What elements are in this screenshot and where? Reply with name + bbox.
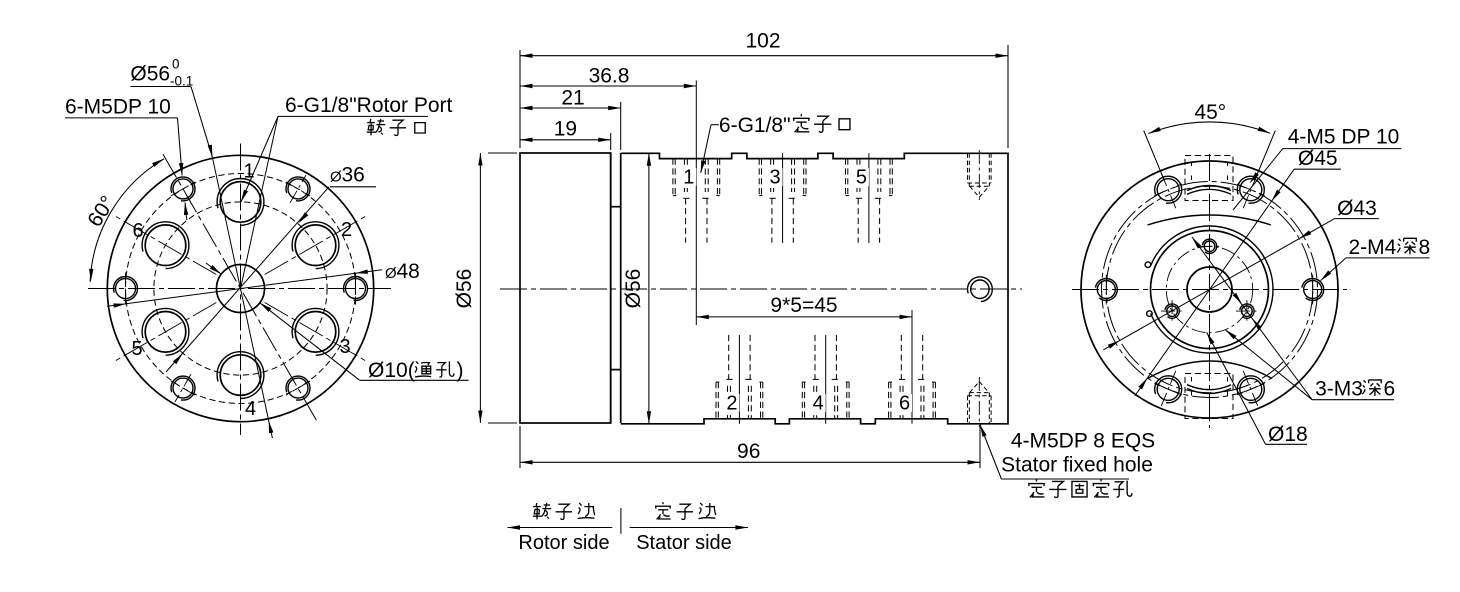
svg-text:9*5=45: 9*5=45 xyxy=(770,294,837,317)
svg-text:Ø56: Ø56 xyxy=(622,269,645,309)
svg-text:5: 5 xyxy=(856,167,867,189)
hole 60 deg radial tick xyxy=(290,175,306,203)
svg-text:19: 19 xyxy=(554,117,577,140)
svg-text:6: 6 xyxy=(899,393,910,415)
svg-text:6: 6 xyxy=(132,220,143,242)
svg-text:1: 1 xyxy=(243,161,254,183)
dim 36.8 xyxy=(520,85,696,87)
circlip lug holes xyxy=(1145,262,1151,268)
svg-text:6: 6 xyxy=(1384,378,1396,401)
svg-text:21: 21 xyxy=(561,87,584,110)
port 6 radial centerline xyxy=(114,216,216,275)
hole 0 deg tangential tick xyxy=(355,275,357,303)
port 2 radial centerline xyxy=(265,216,367,275)
hole 0 deg vertical tick xyxy=(355,273,357,305)
stator body outline with port recesses xyxy=(621,153,1008,424)
port 3 centerline xyxy=(782,153,784,243)
svg-text:Ø56: Ø56 xyxy=(453,269,476,309)
port 5 radial centerline xyxy=(114,303,216,362)
hole 240 deg radial tick xyxy=(175,374,191,402)
stator port 5 hidden bore lines (top) xyxy=(859,159,861,192)
retaining ring (circlip) arc xyxy=(1146,226,1273,353)
left view outer flange circle Ø56 xyxy=(107,155,373,421)
svg-text:3: 3 xyxy=(339,336,350,358)
svg-text:6-G1/8": 6-G1/8" xyxy=(719,114,791,137)
M5 mounting hole at 0 deg xyxy=(346,279,366,299)
stator port 3 hidden thread lines (top) xyxy=(761,159,763,196)
rotor port 4 thread arc xyxy=(217,352,264,399)
svg-text:4-M5DP 8 EQS: 4-M5DP 8 EQS xyxy=(1011,430,1155,453)
svg-text:4: 4 xyxy=(245,398,256,420)
M5 mounting hole at 180 deg xyxy=(116,279,136,299)
hole 180 deg tangential tick xyxy=(125,275,127,303)
45 degree dim extension lines xyxy=(1255,131,1275,180)
port 1 centerline extension xyxy=(695,81,697,326)
right view inner step circle xyxy=(1151,231,1269,349)
right view outer circle xyxy=(1081,161,1338,418)
slot projection shallow arcs top xyxy=(1148,215,1272,225)
M5 mounting hole at 60 deg xyxy=(288,179,308,199)
rotor port 5 (G1/8) bore circle xyxy=(145,312,186,353)
svg-text:Ø45: Ø45 xyxy=(1298,147,1338,170)
M5 mounting hole at 300 deg xyxy=(288,378,308,398)
dim 102 xyxy=(519,50,521,148)
legend separator xyxy=(620,508,622,534)
svg-text:45°: 45° xyxy=(1194,101,1226,124)
svg-text:8: 8 xyxy=(1419,236,1431,259)
svg-text:2: 2 xyxy=(341,219,352,241)
legend rotor side arrow xyxy=(508,527,613,529)
port 4 centerline xyxy=(825,335,827,424)
svg-text:Ø43: Ø43 xyxy=(1337,197,1377,220)
svg-text:0: 0 xyxy=(172,57,180,72)
dim Ø56 stator xyxy=(648,153,650,424)
rotor port 6 thread arc xyxy=(142,222,189,269)
reference line from label to center xyxy=(241,116,279,288)
port 5 centerline xyxy=(868,153,870,243)
hidden keyway slot top (dashed rect) xyxy=(1185,156,1233,201)
svg-text:2-M4: 2-M4 xyxy=(1349,236,1397,259)
rotor port 1 thread arc xyxy=(217,179,264,226)
stator port 1 hidden bore lines (top) xyxy=(686,159,688,192)
svg-text:6-M5DP 10: 6-M5DP 10 xyxy=(65,96,171,119)
leader 6-G1/8 to port 1 center xyxy=(241,116,278,202)
svg-text:Ø: Ø xyxy=(330,169,342,186)
svg-text:1: 1 xyxy=(683,167,694,189)
rotor port 6 (G1/8) bore circle xyxy=(145,225,186,266)
legend stator side arrow xyxy=(630,527,748,529)
svg-text:Ø18: Ø18 xyxy=(1268,423,1308,446)
svg-text:3-M3: 3-M3 xyxy=(1315,378,1363,401)
svg-text:Ø56: Ø56 xyxy=(130,63,170,86)
dim 96 xyxy=(519,426,521,468)
dim 45 degree arc xyxy=(1148,122,1270,134)
M5 mounting hole at 120 deg xyxy=(173,179,193,199)
svg-text:): ) xyxy=(457,359,464,382)
left view vertical centerline xyxy=(240,144,242,436)
dim Ø10(through hole) label and line xyxy=(206,263,221,274)
hidden keyway slot bottom (dashed rect) xyxy=(1185,374,1233,419)
stator port 5 hidden thread lines (top) xyxy=(847,159,849,196)
stator M5 fixing hole (hidden) top xyxy=(967,153,969,183)
stator port 4 hidden bore lines (bottom) xyxy=(816,386,818,419)
svg-text:48: 48 xyxy=(397,260,420,283)
svg-text:5: 5 xyxy=(131,338,142,360)
M5 mounting hole at 240 deg xyxy=(173,378,193,398)
slot projection shallow arcs bottom xyxy=(1148,361,1273,379)
M4 hole on right end (circle view) xyxy=(971,280,989,298)
hole 300 deg tangential tick xyxy=(286,381,310,395)
left view 120-300 diagonal centerline xyxy=(163,154,318,423)
label 6-G1/8 stator port xyxy=(711,124,719,126)
svg-text:2: 2 xyxy=(726,393,737,415)
left view horizontal centerline xyxy=(88,288,391,290)
svg-text:Stator fixed hole: Stator fixed hole xyxy=(1001,454,1153,477)
4x M5 holes on Ø45 with diagonal ticks xyxy=(1240,179,1262,201)
stator M5 fixing hole (hidden) bottom xyxy=(967,396,969,424)
left view center hole Ø10 xyxy=(217,265,265,313)
stator port 6 hidden bore lines (bottom) xyxy=(902,386,904,419)
legend stator side text xyxy=(655,502,671,519)
hole 120 deg tangential tick xyxy=(171,182,195,196)
middle view horizontal centerline xyxy=(500,288,1022,290)
stator port 4 hidden thread lines (bottom) xyxy=(804,382,806,419)
dim 9*5=45 xyxy=(696,316,912,318)
rotor port 2 (G1/8) bore circle xyxy=(295,225,336,266)
right view bolt circle Ø45 (dash-dot) xyxy=(1102,182,1318,398)
svg-text:Stator side: Stator side xyxy=(636,532,732,554)
rotor block outline (side view) xyxy=(520,153,611,423)
svg-text:3: 3 xyxy=(770,167,781,189)
svg-text:36: 36 xyxy=(342,164,365,187)
svg-text:Rotor side: Rotor side xyxy=(518,532,609,554)
rotor port 4 (G1/8) bore circle xyxy=(220,355,261,396)
rotor step strip lines xyxy=(610,153,612,423)
svg-text:6-G1/8"Rotor Port: 6-G1/8"Rotor Port xyxy=(285,94,453,117)
right view bolt circle Ø43 (dash-dot) xyxy=(1106,186,1312,392)
svg-text:4-M5 DP 10: 4-M5 DP 10 xyxy=(1288,126,1400,149)
rotor port 2 thread arc xyxy=(292,222,339,269)
stator port 2 hidden thread lines (bottom) xyxy=(717,382,719,419)
port 3 radial centerline xyxy=(265,303,367,362)
middle view port numbers xyxy=(681,168,696,186)
dim Ø56 rotor xyxy=(488,152,517,154)
svg-text:4: 4 xyxy=(813,393,824,415)
port 2 centerline xyxy=(738,335,740,424)
legend rotor side text xyxy=(533,503,551,519)
rotor port 1 (G1/8) bore circle xyxy=(220,182,261,223)
label 4-M5DP 8 EQS / Stator fixed hole xyxy=(1001,478,1129,480)
svg-text:96: 96 xyxy=(737,440,760,463)
right view M3 bolt circle Ø18 (dash-dot) xyxy=(1166,246,1252,332)
svg-text:102: 102 xyxy=(745,30,780,53)
dim 60 degree arc xyxy=(90,159,164,282)
rotor port 3 (G1/8) bore circle xyxy=(295,312,336,353)
keyway slot inner dashes xyxy=(1191,162,1193,169)
right view horizontal centerline xyxy=(1072,289,1347,291)
right view center hole xyxy=(1187,267,1232,312)
left view port bolt circle Ø36 (dashed) xyxy=(154,202,327,375)
dim Ø56 leader line to rim and diameter line xyxy=(191,87,212,158)
stator port 6 hidden thread lines (bottom) xyxy=(890,382,892,419)
3x M3 holes on Ø18 xyxy=(1204,241,1215,252)
svg-text:36.8: 36.8 xyxy=(589,65,630,88)
dim 19 xyxy=(610,133,612,150)
label Chinese 定子固定孔 xyxy=(1028,479,1045,497)
second leader to Ø18 circle xyxy=(1225,330,1312,400)
dim 21 xyxy=(620,102,622,150)
2x M4 holes on Ø43 xyxy=(1304,281,1322,299)
stator port 3 hidden bore lines (top) xyxy=(773,159,775,192)
hole 60 deg tangential tick xyxy=(286,182,310,196)
left view mounting bolt circle Ø48 (dashed) xyxy=(126,174,356,404)
rotor port 3 thread arc xyxy=(292,308,339,355)
right view vertical centerline xyxy=(1209,154,1211,428)
label rotor port Chinese 转子口 xyxy=(367,119,385,135)
hole 240 deg tangential tick xyxy=(171,381,195,395)
svg-text:Ø: Ø xyxy=(385,265,397,282)
rotor port 5 thread arc xyxy=(142,308,189,355)
hole 180 deg vertical tick xyxy=(125,273,127,305)
leader 6-M5DP 10 to hole xyxy=(178,118,183,176)
port 6 centerline extension xyxy=(911,310,913,424)
stator port 1 hidden thread lines (top) xyxy=(674,159,676,196)
svg-text:Ø10(: Ø10( xyxy=(368,359,415,382)
stator port 2 hidden bore lines (bottom) xyxy=(729,386,731,419)
